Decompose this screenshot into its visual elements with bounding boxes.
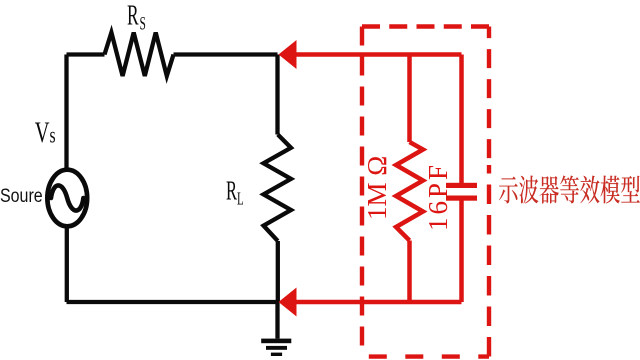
capacitor C1 plate bottom — [446, 196, 477, 201]
wire bottom — [67, 300, 278, 304]
label char 等 — [560, 175, 579, 203]
label char 模 — [600, 175, 620, 203]
wire red top shaft — [293, 52, 462, 57]
source sine wave — [51, 185, 83, 210]
label char 器 — [540, 176, 559, 204]
oscilloscope model dashed box right lower — [487, 165, 491, 357]
source V1 circle — [47, 170, 87, 227]
wire to ground — [275, 302, 279, 339]
wire red capacitor branch lower — [459, 201, 464, 303]
label char 波 — [519, 176, 538, 204]
arrow top — [279, 40, 297, 69]
capacitor C1 plate top — [446, 183, 477, 188]
resistor RS — [105, 33, 174, 77]
wire red capacitor branch upper — [459, 55, 464, 184]
svg-text:1M Ω: 1M Ω — [362, 156, 392, 220]
label char 效 — [580, 175, 599, 203]
wire red resistor branch lower — [407, 241, 412, 303]
ground — [261, 339, 291, 344]
wire red resistor branch upper — [407, 55, 412, 143]
svg-text:16PF: 16PF — [423, 165, 453, 231]
wire red bottom shaft — [293, 300, 462, 305]
oscilloscope model dashed box right upper — [487, 27, 491, 166]
wire top-left segment — [67, 52, 105, 56]
oscilloscope model dashed box top — [362, 24, 489, 28]
label oscilloscope equivalent model (Chinese) — [499, 175, 640, 203]
label char 型 — [621, 176, 640, 203]
resistor 1M ohm — [396, 142, 423, 241]
oscilloscope model dashed box left — [360, 27, 364, 357]
wire left lower — [65, 229, 69, 303]
arrow bottom — [279, 288, 297, 317]
label char 示 — [499, 176, 518, 203]
wire top-right segment — [174, 52, 278, 56]
wire right lower — [276, 241, 280, 302]
resistor RL — [264, 135, 292, 242]
svg-text:Soure: Soure — [0, 185, 43, 207]
wire left upper — [64, 55, 68, 169]
wire right upper — [275, 55, 279, 135]
oscilloscope model dashed box bottom — [369, 354, 489, 358]
